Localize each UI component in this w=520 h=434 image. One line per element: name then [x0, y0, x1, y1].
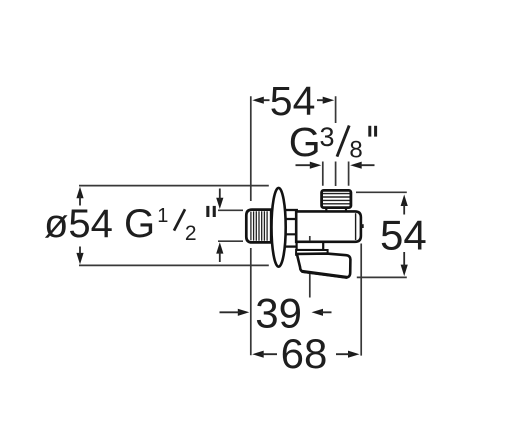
dimension 68: arrows inside [252, 351, 359, 358]
svg-text:54: 54 [270, 78, 316, 124]
outlet nipple hatch lines [323, 194, 350, 204]
svg-text:2: 2 [185, 222, 197, 245]
svg-text:54: 54 [380, 212, 427, 259]
wire: G3/8 extension lines [323, 162, 349, 186]
dimension right 54: vertical dim line + arrows [401, 195, 408, 277]
dimension left dia54: vertical arrows at x=80 [76, 187, 83, 265]
svg-text:3: 3 [320, 122, 335, 152]
valve: handle [297, 254, 351, 278]
valve: hex nut behind escutcheon [284, 210, 297, 247]
svg-text:ø54 G: ø54 G [44, 202, 155, 246]
dimension small G1/2 thread: outside arrows [216, 198, 223, 254]
svg-text:G: G [289, 119, 321, 165]
dimension small G1/2 thread: extension ticks [218, 210, 243, 241]
valve: nipple neck [326, 208, 346, 212]
wire: 39 extension line (stem centre) [309, 236, 311, 298]
dimension 39: outside arrows [238, 309, 323, 316]
dimension G3/8: outside arrows pointing inward [310, 162, 362, 169]
body right notch [361, 224, 364, 228]
svg-text:8: 8 [349, 136, 362, 163]
valve: main body [296, 211, 361, 241]
dimension left dia54: extension lines [79, 186, 269, 266]
svg-text:1: 1 [157, 205, 168, 227]
valve: handle flange bar [296, 250, 328, 255]
hex facet lines [284, 219, 297, 234]
inlet thread hatch lines [251, 211, 267, 241]
wire: 68 right extension line [360, 244, 362, 356]
handle thick bottom edge [302, 271, 348, 277]
valve: escutcheon ellipse [272, 188, 286, 267]
wire: extension line right of top-54 dim (x=335.6, broken at G3/8 text) [335, 96, 337, 186]
valve: outlet nipple G3/8 (top, hatched) [322, 190, 351, 207]
wire: extension line left of top-54 dim (x=250.8, broken at inlet thread) [250, 96, 252, 355]
body inner line (right cap) [355, 213, 357, 240]
dimension top 54: arrows [252, 97, 334, 104]
label dia54 G1/2" [44, 202, 216, 246]
valve: inlet thread G1/2 (left, hatched) [246, 210, 271, 243]
dimension right 54: extension lines [356, 192, 407, 277]
svg-text:68: 68 [281, 330, 328, 377]
label G3/8" [289, 119, 377, 165]
valve: bonnet below body [297, 242, 324, 250]
